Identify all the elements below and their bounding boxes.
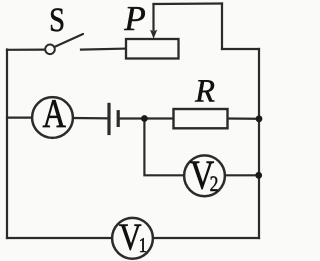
ammeter A circle xyxy=(32,97,73,138)
resistor R body xyxy=(174,109,228,128)
voltmeter V2 label xyxy=(190,151,215,197)
wire right upper vertical xyxy=(221,4,223,50)
wire switch to rheostat P left terminal xyxy=(81,49,126,50)
rheostat P body xyxy=(126,39,179,59)
svg-text:A: A xyxy=(43,91,66,136)
wire node B to resistor R xyxy=(144,117,173,119)
switch S pivot circle xyxy=(45,45,55,55)
wire top-left to switch xyxy=(7,48,45,50)
wire left vertical xyxy=(6,50,8,239)
node right-V2 junction dot xyxy=(255,172,262,179)
wire ammeter row: node to ammeter xyxy=(7,116,32,118)
wire battery to node B xyxy=(118,117,144,119)
wire ammeter to battery xyxy=(73,117,109,120)
node right-main junction dot xyxy=(256,115,263,122)
wire top horizontal over P xyxy=(154,2,223,5)
label S xyxy=(49,2,65,39)
battery cell: long electrode xyxy=(107,103,110,135)
wire bottom horizontal xyxy=(7,237,259,239)
wire resistor R to right node xyxy=(228,117,260,120)
wire V2 to right vertical xyxy=(225,174,259,176)
voltmeter V2 circle xyxy=(184,155,225,196)
label R xyxy=(194,74,215,110)
wire node B down to V2 row xyxy=(144,119,184,176)
wire wiper arrow vertical xyxy=(152,4,154,30)
battery cell: short electrode xyxy=(117,110,120,127)
wire right vertical xyxy=(258,49,260,238)
voltmeter V1 circle xyxy=(112,218,153,259)
wire step horizontal xyxy=(222,48,259,50)
switch S blade xyxy=(54,34,83,47)
svg-text:S: S xyxy=(49,2,65,39)
voltmeter V1 label xyxy=(119,216,142,258)
rheostat wiper arrowhead xyxy=(150,30,157,39)
svg-text:2: 2 xyxy=(210,171,219,196)
ammeter label A xyxy=(43,91,66,136)
svg-text:R: R xyxy=(194,74,215,110)
node B junction dot xyxy=(141,115,148,122)
svg-text:1: 1 xyxy=(139,233,147,257)
label P xyxy=(123,0,145,38)
svg-text:P: P xyxy=(123,0,145,38)
